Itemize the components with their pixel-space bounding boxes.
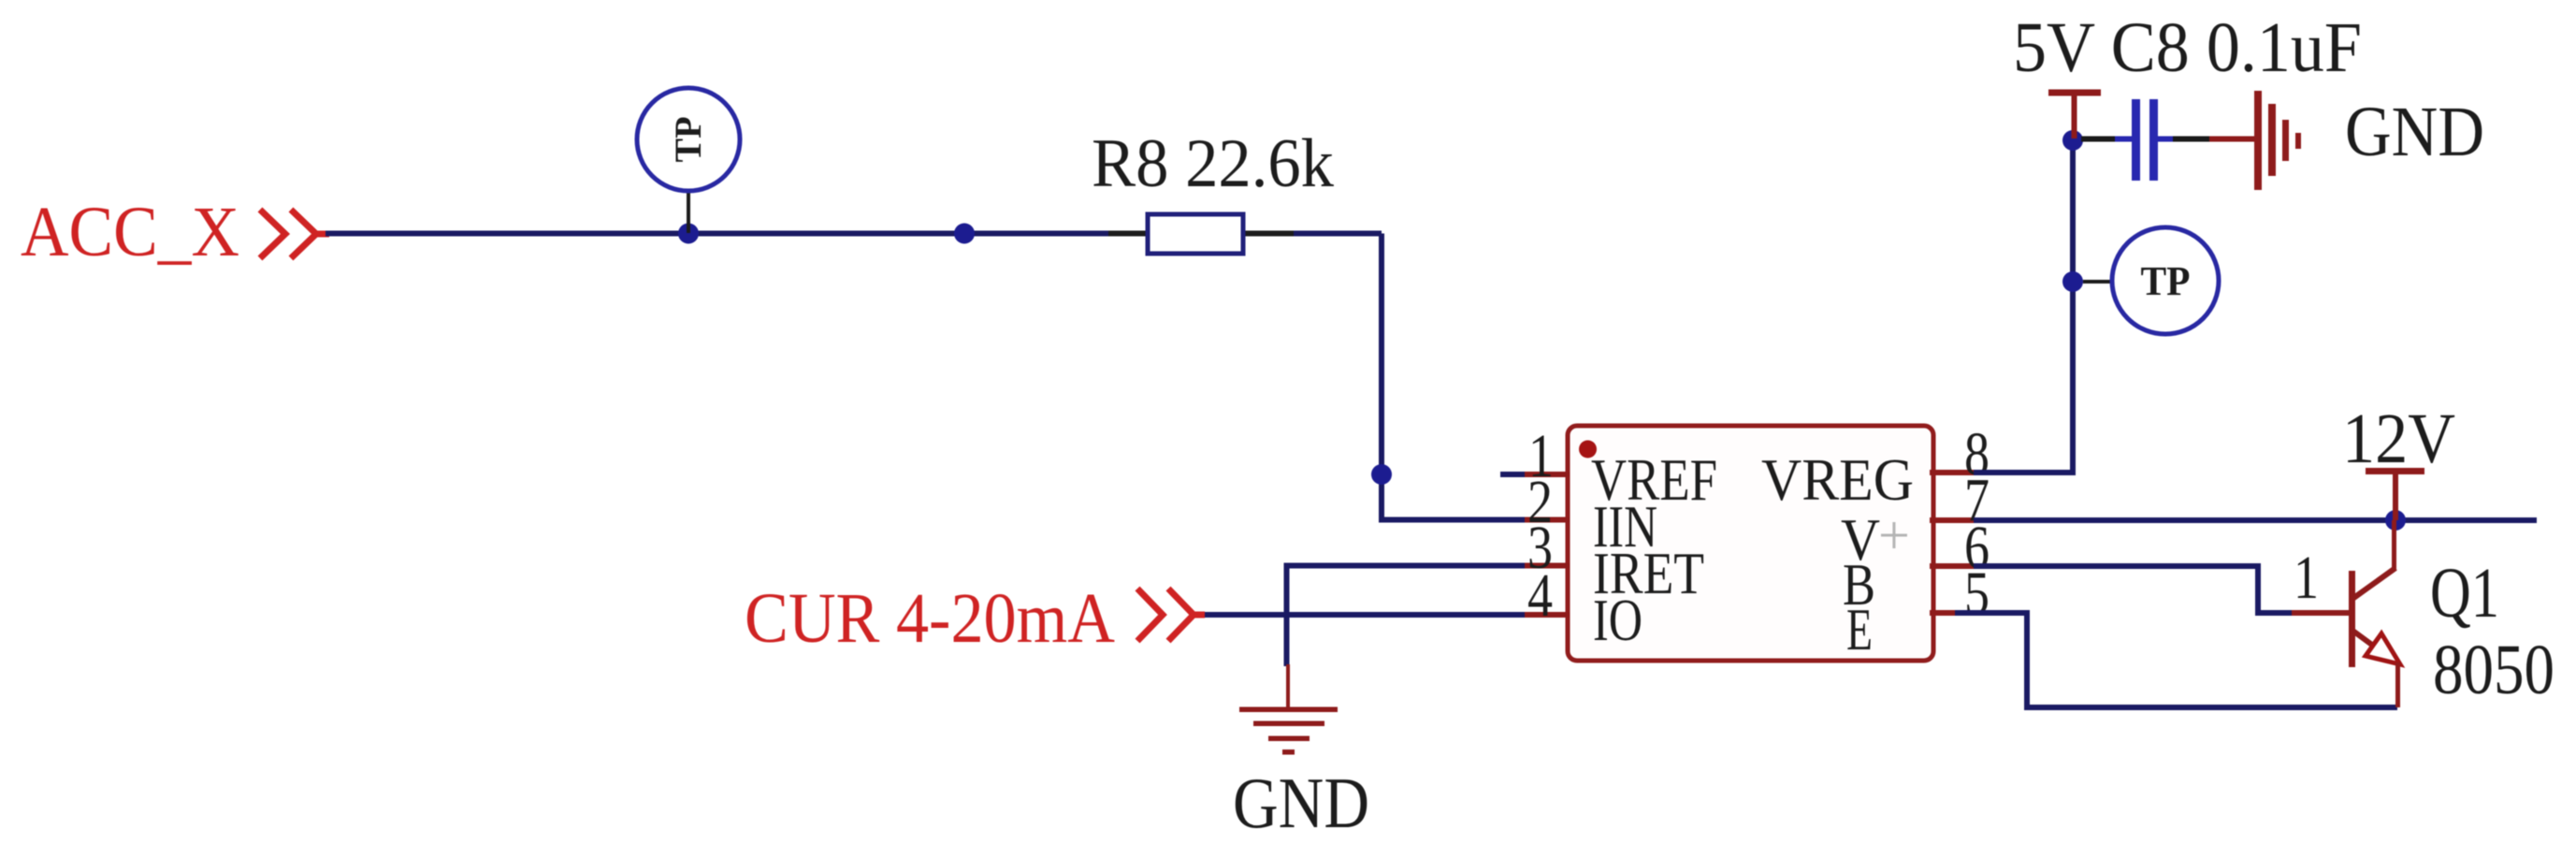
- pin stub 3: [1525, 563, 1570, 569]
- ground lead (middle): [1286, 664, 1290, 709]
- wire B net to transistor base: [1974, 566, 2294, 613]
- capacitor C8: [2081, 99, 2211, 181]
- wire resistor lead left: [1108, 231, 1150, 237]
- pin stub 5: [1930, 610, 1975, 616]
- pin stub 6: [1930, 563, 1975, 569]
- wire IO net: [1201, 612, 1527, 618]
- junction dot 5V node: [2062, 130, 2083, 151]
- svg-text:R8 22.6k: R8 22.6k: [1092, 125, 1334, 202]
- svg-text:CUR 4-20mA: CUR 4-20mA: [745, 579, 1115, 658]
- junction dot on vertical wire: [1371, 464, 1392, 485]
- port chevron ACC_X: [260, 210, 329, 258]
- wire ACC_X horizontal: [326, 231, 1382, 237]
- svg-text:GND: GND: [2345, 93, 2484, 171]
- svg-text:E: E: [1846, 596, 1873, 662]
- transistor Q1: [2349, 520, 2400, 707]
- wire V+ net 12V rail: [1974, 517, 2537, 523]
- svg-text:1: 1: [2294, 544, 2319, 612]
- IC U1 body (8-pin current transmitter): [1568, 426, 1933, 661]
- port chevron CUR: [1137, 589, 1205, 641]
- power symbol 5V: [2048, 93, 2101, 138]
- svg-text:VREG: VREG: [1761, 446, 1914, 513]
- svg-text:12V: 12V: [2342, 400, 2455, 478]
- resistor R8: [1148, 214, 1243, 254]
- junction dot at TP1 tap: [678, 224, 699, 244]
- svg-text:5V C8 0.1uF: 5V C8 0.1uF: [2013, 8, 2362, 87]
- svg-text:IO: IO: [1593, 587, 1643, 653]
- transistor base lead: [2292, 610, 2350, 616]
- svg-text:Q1: Q1: [2430, 554, 2499, 633]
- pin stub 4: [1525, 612, 1570, 618]
- wire E net: [1955, 613, 2397, 707]
- wire vertical to pin2: [1382, 234, 1527, 520]
- svg-text:+: +: [1878, 504, 1910, 566]
- junction dot mid wire: [954, 224, 975, 244]
- wire VREG to 5V rail: [1974, 138, 2073, 473]
- ground symbol (middle): [1239, 707, 1338, 755]
- svg-text:4: 4: [1527, 561, 1553, 630]
- svg-text:8050: 8050: [2433, 631, 2554, 709]
- ground symbol (top right, sideways): [2254, 91, 2301, 190]
- svg-text:5: 5: [1964, 560, 1990, 628]
- pin stub 8: [1930, 470, 1975, 475]
- pin stub 1: [1525, 472, 1570, 477]
- pin label V+: [1841, 504, 1910, 573]
- pin stub 7: [1930, 517, 1975, 523]
- wire resistor lead right: [1241, 231, 1294, 237]
- wire IRET net: [1287, 566, 1527, 667]
- wire stub pin1: [1500, 472, 1527, 477]
- pin stub 2: [1525, 517, 1570, 523]
- svg-text:ACC_X: ACC_X: [21, 193, 239, 271]
- junction dot 12V node: [2385, 510, 2406, 531]
- test point TP2: [2083, 227, 2219, 334]
- ground lead (top right): [2209, 137, 2256, 142]
- svg-text:TP: TP: [667, 117, 709, 163]
- junction dot TP2 tap: [2062, 271, 2083, 292]
- svg-text:TP: TP: [2141, 258, 2191, 304]
- svg-text:GND: GND: [1233, 763, 1369, 843]
- test point TP1: [637, 88, 740, 233]
- power symbol 12V: [2366, 472, 2424, 521]
- pin1 marker dot: [1579, 441, 1597, 458]
